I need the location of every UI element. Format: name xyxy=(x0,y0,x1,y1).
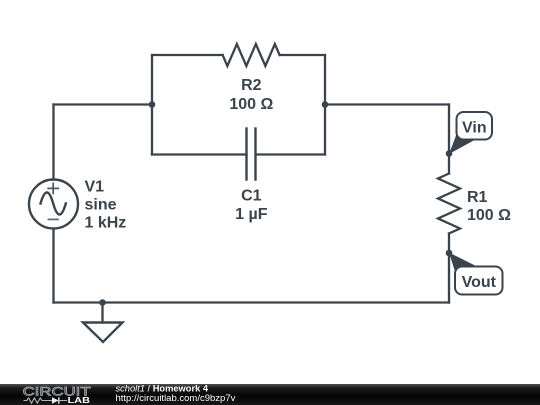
resistor R1 zigzag xyxy=(438,174,460,234)
capacitor C1 right plate xyxy=(254,129,256,180)
svg-text:R1: R1 xyxy=(467,189,488,206)
wire parallel-loop right vertical xyxy=(324,55,326,155)
svg-text:1 µF: 1 µF xyxy=(235,206,268,223)
voltage source V1 plus sign xyxy=(47,183,59,195)
ground stem xyxy=(101,303,103,323)
svg-text:LAB: LAB xyxy=(68,395,91,405)
logo doodle diode xyxy=(52,397,59,403)
svg-text:http://circuitlab.com/c9bzp7v: http://circuitlab.com/c9bzp7v xyxy=(116,393,236,404)
capacitor C1 left plate xyxy=(245,129,247,180)
wire left rail lower (V1 bottom to bottom rail) xyxy=(52,229,54,303)
wire right vertical upper (corner to R1) xyxy=(448,105,450,174)
Vout flag box xyxy=(455,267,503,295)
wire loop top left segment xyxy=(152,54,223,56)
wire loop top right segment xyxy=(280,54,325,56)
wire loop bottom right segment xyxy=(256,153,326,155)
resistor R2 zigzag xyxy=(223,44,280,66)
node junction dot A (top rail left) xyxy=(149,101,156,108)
Vin flag pointer xyxy=(449,133,476,154)
logo doodle wire with resistor xyxy=(24,398,53,403)
voltage source V1 sine wave xyxy=(41,193,66,215)
svg-text:100 Ω: 100 Ω xyxy=(229,96,273,113)
svg-text:V1: V1 xyxy=(85,178,105,195)
wire right vertical lower (R1 to bottom rail) xyxy=(448,234,450,303)
svg-text:1 kHz: 1 kHz xyxy=(85,215,127,232)
wire left rail upper (V1 top to top rail) xyxy=(52,105,54,180)
voltage source V1 circle xyxy=(29,180,78,229)
node Vout dot xyxy=(446,250,453,257)
svg-text:R2: R2 xyxy=(241,77,262,94)
svg-text:Vout: Vout xyxy=(462,274,497,291)
ground junction dot xyxy=(99,299,106,306)
node junction dot B (top rail right) xyxy=(322,101,329,108)
node Vin dot xyxy=(446,150,453,157)
wire loop bottom left segment xyxy=(152,153,247,155)
voltage source V1 minus sign xyxy=(48,218,59,220)
svg-text:scholt1 / Homework 4: scholt1 / Homework 4 xyxy=(116,384,209,394)
Vout flag pointer xyxy=(449,253,478,271)
Vin flag box xyxy=(457,112,493,140)
ground triangle xyxy=(83,323,123,343)
svg-text:100 Ω: 100 Ω xyxy=(467,207,511,224)
svg-text:sine: sine xyxy=(85,196,117,213)
wire parallel-loop left vertical xyxy=(151,55,153,155)
svg-text:Vin: Vin xyxy=(462,120,487,137)
wire top rail right (node B to right corner) xyxy=(325,103,449,105)
wire bottom rail xyxy=(54,301,450,303)
wire top-left horizontal (left rail to node A) xyxy=(54,103,153,105)
svg-text:C1: C1 xyxy=(241,187,262,204)
